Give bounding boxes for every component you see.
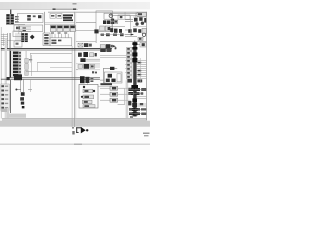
rule line dark right end xyxy=(73,8,76,10)
vertical line x7.5 xyxy=(6,33,9,48)
top strip lower edge xyxy=(0,8,78,11)
top toolbar strip xyxy=(0,2,150,9)
K1 top bar xyxy=(51,26,56,28)
small dark dot xyxy=(22,106,25,108)
component row mid (78-91,43-47) xyxy=(78,43,92,47)
vertical divider x74 xyxy=(73,12,76,127)
sensor blob A xyxy=(21,92,25,96)
vertical line x31 xyxy=(30,55,33,76)
dense connector 80-90 y76-83 xyxy=(80,76,93,83)
wire dashes right of bus xyxy=(138,62,142,76)
blob in box xyxy=(142,43,145,46)
dark comp 80-86 y58-62 xyxy=(80,58,85,62)
blob on wire xyxy=(110,67,114,70)
line y71.5 xyxy=(26,70,72,73)
top right box TR1 xyxy=(137,12,146,16)
main bus line dark xyxy=(1,48,112,49)
bottom-right tiny text line1 xyxy=(143,133,150,135)
marks y78-83 left xyxy=(127,79,142,83)
drawing frame right xyxy=(145,12,148,121)
dense rows y108-115 xyxy=(129,108,146,115)
big box left edge xyxy=(29,53,32,62)
E5 marks xyxy=(44,34,48,44)
stack wires left xyxy=(100,88,110,100)
wires y55.5 57.5 xyxy=(100,56,126,58)
wire ladder above CN2 xyxy=(19,26,31,31)
diamond junction xyxy=(30,35,35,40)
wire ladder left of CN2 xyxy=(15,34,21,40)
vertical divider x72 xyxy=(71,46,74,127)
big box top edge xyxy=(30,52,72,55)
wires y63.5-69.5 xyxy=(76,65,100,70)
thin wires through dense rows xyxy=(128,89,146,93)
dark contact blobs xyxy=(103,19,114,24)
bus pair line1 xyxy=(10,76,100,79)
wires y103-106 xyxy=(137,104,146,106)
left stubs to bus xyxy=(125,60,127,72)
relay coil circle K5 xyxy=(135,22,138,25)
main bus line2 xyxy=(1,49,112,52)
bus junction blobs xyxy=(131,42,138,115)
wire y34.5 xyxy=(125,33,131,36)
wire dash 115 y47-49 xyxy=(115,47,116,49)
relay row box K3 xyxy=(64,25,70,31)
L1 mark xyxy=(51,15,54,17)
cluster 78-96 y52-58 xyxy=(78,52,97,57)
left gray band xyxy=(5,38,7,118)
ECU outline xyxy=(79,84,98,108)
page background xyxy=(0,0,150,150)
faint vertical x30.5 xyxy=(29,80,32,92)
vertical divider x76 faint xyxy=(75,12,78,118)
dark vertical line x10.5 lower xyxy=(9,80,12,113)
vertical wire x125 xyxy=(124,12,127,20)
box right y42-47 xyxy=(140,42,146,47)
page number 2 xyxy=(72,131,74,135)
wire y41.3 left xyxy=(76,40,96,43)
vertical wire x44.5 top xyxy=(43,12,46,33)
footer rule dark dash xyxy=(74,144,82,145)
top strip rule line xyxy=(53,8,77,11)
wires y96-100 right xyxy=(137,96,147,98)
gray corner band bottom-left xyxy=(7,108,9,118)
E2 mark xyxy=(16,27,20,30)
vertical wire x112 xyxy=(111,19,114,33)
gray corner band horizontal xyxy=(8,114,26,118)
E1 component b xyxy=(27,18,31,20)
dash right of cluster xyxy=(28,88,32,91)
middle-left cluster wires down xyxy=(20,80,23,92)
bus top wire xyxy=(133,41,136,43)
drawing frame bottom line1 xyxy=(2,117,147,120)
drawing frame top xyxy=(48,11,147,14)
bus junction blob strip-bottom xyxy=(14,74,22,80)
divider end tick xyxy=(72,127,74,129)
enclosure box E1 xyxy=(18,13,43,22)
mark in wide box xyxy=(120,16,123,18)
vertical collector x124.4 xyxy=(123,88,126,105)
CN1 wire labels xyxy=(15,16,19,23)
box contents blob2 xyxy=(106,79,110,82)
bottom gray strip xyxy=(0,121,150,127)
ECU row4 xyxy=(83,105,95,108)
wire y24.5 xyxy=(6,23,25,26)
wire y36.6 xyxy=(125,35,137,38)
box contents blob1 xyxy=(108,74,112,78)
wires in TR cluster xyxy=(133,13,146,27)
relay coil circle K6 xyxy=(141,22,144,25)
thin wires through bottom rows xyxy=(129,109,146,113)
vertical line x26 y51-58 xyxy=(25,51,28,58)
K4 top bar xyxy=(71,26,75,28)
K2 top bar xyxy=(57,26,62,28)
connector CN1 pins xyxy=(6,14,14,24)
E6 marks xyxy=(51,40,61,44)
wire right of cluster y26.5 xyxy=(110,25,125,28)
component row y64-70 xyxy=(78,64,95,69)
legend box L2 xyxy=(57,14,62,19)
dark row under cluster xyxy=(101,33,124,36)
ECU row2 xyxy=(81,95,94,99)
faint vertical x140 xyxy=(139,58,142,82)
dense dark rows y88-95 xyxy=(128,88,146,95)
relay lower marks xyxy=(51,32,67,33)
vertical wire x130.5 xyxy=(129,16,132,33)
dark row 100-112 y83-85 xyxy=(100,83,112,85)
box column 126-132.5 y47-80 xyxy=(126,47,132,80)
sensor blob C xyxy=(21,102,24,105)
enclosure box E2 xyxy=(14,25,43,31)
dark blob x96 under cluster xyxy=(94,29,98,33)
rule line dark left end xyxy=(53,8,56,10)
main dark bus xyxy=(133,42,136,117)
small box with mark xyxy=(138,37,143,40)
wide short box top xyxy=(118,15,130,19)
K3 top bar xyxy=(64,26,69,28)
wire y41.5 xyxy=(100,40,146,43)
left wire ladder xyxy=(1,35,8,45)
vertical wire x96 down xyxy=(95,31,98,43)
small box x114 xyxy=(114,20,118,23)
relay with coil circle xyxy=(104,13,113,19)
component circle with tail xyxy=(142,33,145,36)
bridge wire y40.6 xyxy=(1,39,21,42)
terminal strip rows xyxy=(13,51,22,77)
bottom-right tiny text line2 xyxy=(144,135,149,136)
vertical wire into ECU xyxy=(86,83,89,84)
mark xyxy=(139,38,141,40)
footer rule line xyxy=(0,144,150,145)
gray column boxes 25-28 xyxy=(25,58,28,75)
cluster 100-112 y44-52 xyxy=(100,44,113,52)
parts table dark block xyxy=(63,14,73,21)
E1 component a xyxy=(27,15,31,17)
ladder vertical xyxy=(2,34,5,47)
lower boxes in R0 xyxy=(100,26,110,31)
dark bar left of strip xyxy=(10,51,12,78)
wires right y59-61 xyxy=(86,59,100,61)
small text 4. xyxy=(130,116,133,118)
small marks 92-97 y71-74 xyxy=(92,71,97,73)
wires from divider to cluster xyxy=(76,23,96,31)
box 104-122 y72-83 xyxy=(104,72,122,83)
E1 component c xyxy=(33,15,36,17)
dark relay cluster upper xyxy=(134,17,146,22)
enclosure box R0 xyxy=(96,11,112,32)
bus pair line2 xyxy=(1,78,100,81)
box contents blob3 xyxy=(111,79,115,82)
vertical line x9.6 upper xyxy=(9,33,12,51)
box E4 xyxy=(14,41,22,47)
line y67.5 xyxy=(50,66,72,69)
relay wire stubs down xyxy=(52,34,68,38)
drawing frame left faint xyxy=(0,27,3,119)
dark trio lower xyxy=(110,28,122,33)
TR1 mark xyxy=(138,13,142,15)
wire y44 xyxy=(137,43,140,46)
ECU row3 xyxy=(82,100,92,103)
ECU row1 xyxy=(83,89,95,93)
dark relay cluster lower xyxy=(128,28,141,32)
wires at top xyxy=(110,14,137,30)
E1 component d xyxy=(38,15,41,18)
tiny label dash xyxy=(29,59,32,60)
stack wires right xyxy=(118,88,125,104)
component stack box E5 xyxy=(43,33,50,45)
wire y80 left stub xyxy=(100,79,104,82)
wires right of bus y60-78 xyxy=(137,60,147,78)
stack boxes 110-118 xyxy=(110,86,118,102)
row wires y63.8/69.8 xyxy=(76,64,100,70)
relay row box K2 xyxy=(57,25,63,31)
arrow right mid xyxy=(131,33,134,35)
relay row box K4 xyxy=(70,25,75,31)
legend box L1 xyxy=(50,14,55,19)
box contents box4 xyxy=(117,74,121,82)
L2 mark xyxy=(58,15,61,17)
mouse cursor arrow xyxy=(76,127,86,133)
wire vertical x103.5 xyxy=(102,68,105,83)
arrow at 112-116 xyxy=(113,45,116,47)
cursor dot xyxy=(86,129,88,131)
bus junction blob left xyxy=(7,77,10,80)
gray band below column xyxy=(126,80,129,118)
wire y68.5 xyxy=(103,67,117,70)
cluster 128-137 y98-107 xyxy=(128,101,137,107)
ladder dark dashes xyxy=(23,27,26,31)
small dash left of column xyxy=(115,47,117,49)
dash 140-143 y103-105 xyxy=(140,103,143,105)
box E3 xyxy=(13,31,22,37)
box right lower xyxy=(142,28,146,33)
ladder rail vertical xyxy=(18,26,21,35)
nested left edge xyxy=(36,62,39,71)
E4 inner mark xyxy=(16,43,19,45)
wires lower area from ECU to right xyxy=(98,86,131,100)
connector CN2 pins xyxy=(21,33,28,42)
wire under parts table b xyxy=(45,23,76,26)
relay row box K1 xyxy=(50,25,56,31)
wire stub up from connector xyxy=(10,10,11,15)
nested line y62.5 xyxy=(37,61,72,64)
wire under parts table a xyxy=(45,22,76,25)
wide box E6 xyxy=(50,38,72,46)
table bottom gray blob xyxy=(1,109,9,112)
sensor blob B xyxy=(20,97,24,100)
ECU top dot xyxy=(83,86,85,88)
wire through row xyxy=(100,33,125,36)
top strip tiny dash xyxy=(73,3,77,5)
drawing frame bottom line2 xyxy=(2,119,147,122)
left list table xyxy=(1,84,9,110)
wire hook with dot xyxy=(15,89,21,91)
